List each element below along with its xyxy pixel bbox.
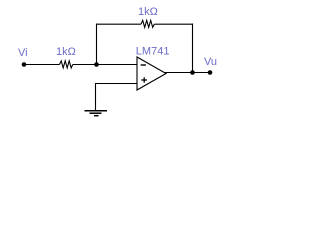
resistor R1 1k (input): [60, 61, 73, 68]
wire R1 to op-amp inverting input: [73, 64, 137, 66]
svg-text:Vi: Vi: [18, 47, 28, 59]
ground symbol: [85, 111, 108, 116]
op-amp minus sign (inverting input): [141, 64, 146, 66]
node Vi terminal dot: [22, 62, 27, 67]
wire non-inverting input: [95, 83, 137, 85]
wire feedback vertical right down to output: [192, 24, 194, 73]
resistor R2 1k (feedback): [141, 20, 154, 27]
svg-text:Vu: Vu: [204, 56, 217, 68]
op-amp plus sign (non-inverting input): [141, 79, 147, 81]
wire down to ground: [95, 84, 97, 111]
svg-text:1kΩ: 1kΩ: [56, 46, 76, 58]
wire op-amp output to Vu: [165, 72, 210, 74]
svg-text:LM741: LM741: [136, 46, 170, 58]
op-amp U1 LM741 triangle: [137, 57, 166, 90]
wire feedback vertical left: [96, 24, 98, 65]
junction dot node A (inverting input): [94, 62, 99, 67]
svg-text:1kΩ: 1kΩ: [138, 6, 158, 18]
junction dot output/feedback: [190, 70, 195, 75]
wire feedback top left segment: [96, 23, 141, 25]
wire feedback top right segment: [154, 23, 193, 25]
wire Vi to R1: [24, 64, 60, 66]
node Vu terminal dot: [208, 70, 213, 75]
